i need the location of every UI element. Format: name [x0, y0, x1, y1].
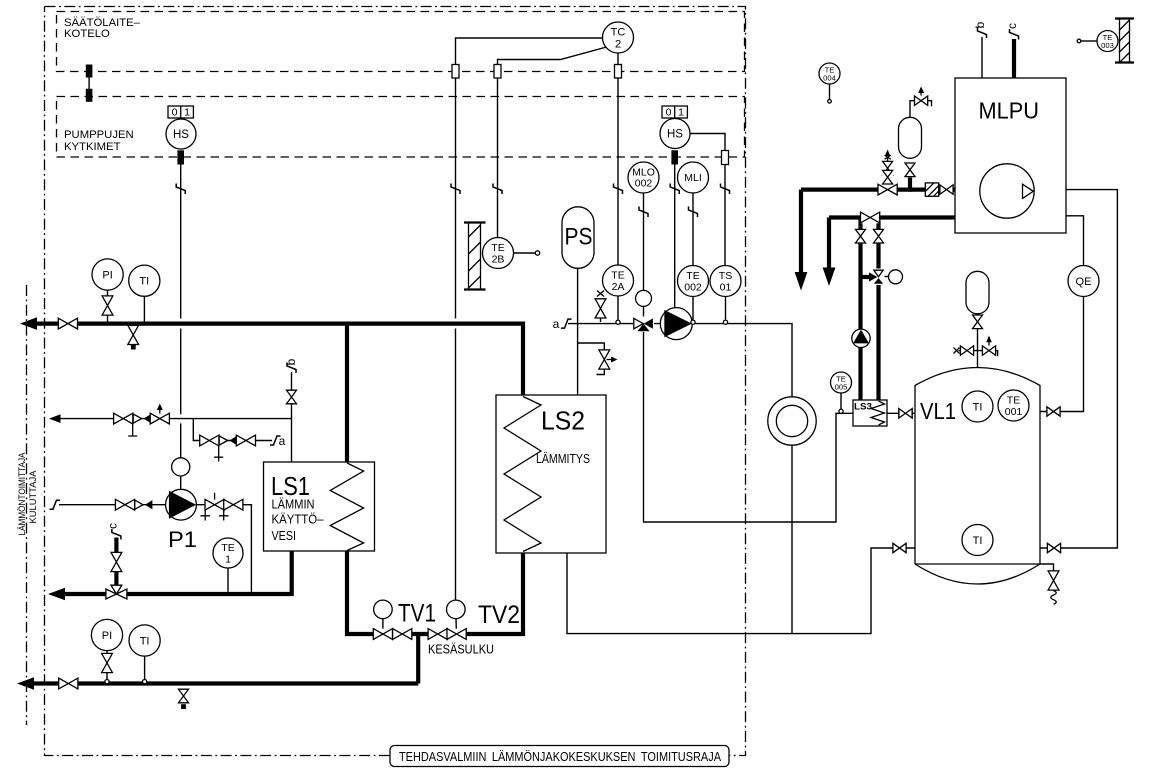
node TI lower — [143, 680, 147, 684]
pipe hot water supply out of LS1 — [58, 551, 292, 594]
pipe relief valve branch — [578, 343, 605, 375]
pipe cold water connection c — [114, 538, 118, 593]
check valve P1 suction — [135, 500, 153, 509]
three way valve hw line — [106, 585, 128, 603]
svg-text:002: 002 — [684, 282, 702, 294]
heat meter double circle — [768, 397, 816, 445]
valve row2 outlet — [236, 435, 256, 447]
label TI upper — [139, 276, 149, 288]
supplier/consumer boundary line — [26, 285, 28, 725]
svg-text:TI: TI — [973, 402, 983, 414]
svg-text:2A: 2A — [612, 281, 625, 293]
arrow MLPU return down — [823, 268, 836, 287]
valve row1 shutoff — [113, 413, 137, 436]
svg-text:LS2: LS2 — [541, 406, 585, 436]
stem expansion vessel top elbow — [910, 101, 932, 118]
charging pump LS3 — [852, 329, 870, 347]
pipe tank drain — [1040, 564, 1054, 572]
valve LS3 riser left — [855, 229, 866, 243]
label LAMMITYS — [536, 451, 590, 466]
svg-text:MLPU: MLPU — [979, 98, 1040, 124]
label LS2 — [541, 406, 585, 436]
pump inside MLPU — [980, 164, 1034, 218]
label a heating — [553, 317, 560, 331]
instrument MLI — [678, 162, 709, 193]
pipe tank top safety group — [959, 329, 998, 369]
svg-text:MLI: MLI — [684, 172, 702, 184]
break mark connection a row2 — [270, 436, 281, 445]
label TE2A — [611, 270, 624, 294]
pipe riser cross link — [861, 275, 871, 279]
label PS — [565, 224, 593, 251]
instrument TS01 — [710, 266, 741, 297]
svg-text:KULUTTAJA: KULUTTAJA — [28, 470, 38, 523]
node TS01 — [723, 320, 727, 324]
svg-text:0: 0 — [666, 107, 672, 119]
stem TE2A to pipe — [617, 296, 619, 321]
label LS3 — [854, 402, 872, 413]
break mark connection c MLPU — [1010, 29, 1019, 40]
wire HS1 to pump P1 — [176, 165, 185, 490]
gauge valve PI lower — [101, 653, 113, 673]
valve P1 discharge 2 — [219, 499, 243, 521]
cabinet connector blocks — [86, 65, 93, 102]
label LAMMONTOIMITTAJA — [17, 452, 27, 535]
wire HS2 to TS01 — [690, 134, 730, 266]
svg-text:b: b — [973, 21, 987, 28]
svg-text:KOTELO: KOTELO — [64, 28, 110, 40]
svg-text:002: 002 — [635, 178, 653, 190]
actuator TV1 — [374, 600, 393, 628]
instrument TE003 — [1077, 31, 1118, 52]
vent arrow vessel safety valve — [918, 87, 924, 96]
vessel above tank — [966, 271, 989, 314]
coil LS3 — [871, 401, 885, 425]
svg-text:001: 001 — [1005, 406, 1023, 418]
pipe LS3 riser right — [876, 218, 880, 401]
label MLPU — [979, 98, 1040, 124]
instrument TI lower — [129, 625, 160, 656]
vent valve row1 — [150, 404, 170, 425]
svg-text:a: a — [279, 434, 286, 448]
pipe hw circulation P1 row — [59, 505, 251, 594]
instrument HS2 — [660, 119, 690, 149]
stem PI lower — [106, 651, 108, 680]
valve LS3 to tank — [899, 408, 913, 418]
expansion vessel MLPU — [899, 117, 922, 158]
capped end mark — [954, 348, 960, 354]
valve row2 shutoff — [199, 435, 223, 462]
pipe district heating supply — [30, 324, 523, 395]
delivery boundary dash-dot frame — [45, 7, 746, 756]
stem TS01 to pipe — [725, 297, 727, 321]
wire TC2 to TV2 actuator — [451, 38, 603, 600]
svg-text:TV1: TV1 — [398, 600, 436, 628]
wall mount TE003 — [1115, 19, 1134, 63]
node PI lower — [105, 680, 109, 684]
valve under vessel — [973, 315, 983, 329]
valve tank left upper — [899, 408, 913, 418]
safety valve heating a-line — [595, 291, 607, 323]
wire MLO002 to magnetic valve — [639, 193, 648, 317]
svg-text:LÄMMÖNTOIMITTAJA: LÄMMÖNTOIMITTAJA — [17, 452, 27, 535]
label HS1 switch 0 1 — [172, 107, 191, 119]
vent arrow supply header — [885, 150, 891, 160]
break mark connection b LS1 — [287, 363, 296, 374]
pipe branch row2 — [193, 419, 272, 441]
wire HS2 to circulation pump — [670, 165, 679, 308]
valve tank left lower — [893, 543, 907, 553]
svg-text:LÄMMIN: LÄMMIN — [272, 497, 315, 512]
coupling circle above P1 — [172, 458, 190, 476]
instrument TC2 — [603, 22, 634, 53]
connector square node column TE2A — [615, 65, 622, 79]
pipe primary to LS1 coil — [345, 322, 349, 463]
valve LS3 riser right — [873, 229, 884, 243]
label HS2 switch 0 1 — [666, 107, 685, 119]
drain valve return line — [178, 689, 189, 709]
relief valve heating — [599, 350, 618, 370]
label P1 — [168, 527, 197, 552]
stem TE1 to pipe — [227, 568, 229, 592]
valve MLPU supply header — [878, 184, 898, 196]
valve main supply — [58, 318, 78, 330]
label PI upper — [102, 270, 112, 282]
svg-text:005: 005 — [835, 383, 848, 392]
stem PI upper — [107, 290, 109, 322]
label PI lower — [102, 630, 112, 642]
svg-text:TI: TI — [140, 636, 150, 648]
svg-text:TE: TE — [611, 270, 624, 282]
instrument TE2A — [603, 265, 634, 296]
svg-text:PI: PI — [102, 270, 112, 282]
svg-text:1: 1 — [678, 107, 684, 119]
valve TV2 body — [447, 628, 467, 640]
valve TV1 body pair — [373, 628, 412, 640]
label MLI — [684, 172, 702, 184]
circulation pump heating — [660, 308, 692, 340]
pipe MLPU return header — [829, 218, 955, 269]
label TI lower — [140, 636, 150, 648]
instrument TE1 — [213, 538, 243, 568]
arrow MLPU supply down — [795, 272, 808, 291]
heat exchanger LS2 box — [496, 395, 606, 553]
label TV2 — [478, 601, 520, 629]
valve MLPU return header — [860, 212, 880, 224]
label HS2 — [667, 129, 683, 141]
switch box HS2 — [662, 106, 687, 118]
stub TE003 — [1081, 40, 1097, 42]
label TC2 — [611, 27, 626, 51]
pipe district heating return — [28, 681, 418, 685]
label b LS1 — [284, 358, 298, 365]
pipe tank upper right to QE — [1040, 216, 1084, 412]
svg-text:c: c — [106, 523, 120, 529]
svg-text:1: 1 — [225, 554, 231, 566]
label TI tank lower — [973, 535, 983, 547]
instrument MLO002 — [628, 162, 659, 193]
pipe LS3 to tank VL1 — [887, 412, 915, 414]
wall mount TE2B — [464, 223, 486, 290]
instrument PI upper — [92, 259, 123, 290]
svg-text:VESI: VESI — [272, 528, 297, 543]
svg-text:P1: P1 — [168, 527, 197, 552]
stem TI upper — [143, 296, 145, 322]
label TE001 — [1005, 395, 1023, 419]
connector block below HS1 — [177, 150, 184, 164]
stem TE005 — [840, 393, 842, 410]
svg-text:TI: TI — [973, 535, 983, 547]
label KULUTTAJA — [28, 470, 38, 523]
label LAMMIN KAYTTOVESI — [272, 497, 325, 544]
vent arrow tank safety — [986, 336, 992, 347]
svg-text:PS: PS — [565, 224, 593, 251]
instrument TE005 — [831, 372, 852, 393]
valve summer shutoff KESASULKU — [428, 628, 448, 640]
label HS1 — [173, 129, 189, 141]
node TE005 — [839, 409, 843, 413]
instrument TE2B — [483, 238, 540, 269]
check valve row1 — [133, 414, 151, 423]
label TE002 — [684, 270, 702, 294]
coil LS2 — [504, 397, 541, 552]
label SAATOLAITEKOTELO — [64, 17, 141, 40]
arrow hot water outlet — [48, 588, 65, 601]
magnetic three way valve — [633, 317, 654, 333]
flexible drain hose — [1051, 591, 1057, 605]
arrow return outlet — [17, 677, 34, 690]
mixing valve LS3 riser — [869, 269, 885, 286]
svg-text:HS: HS — [667, 129, 683, 141]
check valve row2 — [219, 436, 237, 445]
arrow supply inlet — [20, 317, 37, 330]
valve tank right upper — [1047, 406, 1061, 416]
pipe connection b above LS1 — [291, 372, 293, 462]
wire TC2 to TE2A sensor — [614, 53, 623, 265]
actuator circle of magnetic valve — [636, 290, 652, 306]
label c cold water — [106, 523, 120, 529]
label TE005 — [835, 375, 848, 392]
svg-text:LÄMMITYS: LÄMMITYS — [536, 451, 590, 466]
pipe return drop at TV junction — [416, 634, 420, 684]
label TE003 — [1101, 33, 1114, 50]
valve P1 discharge 1 — [200, 493, 224, 521]
label KESASULKU — [428, 643, 494, 657]
delivery limit label box — [390, 746, 729, 767]
break mark connection b MLPU — [978, 28, 987, 39]
pipe LS3 riser left — [858, 218, 862, 401]
valve tank top left — [960, 346, 974, 356]
pipe cold water row1 — [55, 418, 292, 420]
wire TC2 to TE2B sensor — [493, 47, 607, 238]
instrument TI tank upper — [962, 391, 993, 422]
svg-text:LS3: LS3 — [854, 402, 872, 413]
svg-text:004: 004 — [823, 74, 836, 83]
svg-text:TE: TE — [221, 542, 234, 554]
actuator circle LS3 valve — [889, 270, 903, 284]
node TE002 — [691, 320, 695, 324]
stem TE002 to pipe — [692, 297, 694, 321]
label TE004 — [823, 66, 836, 83]
svg-text:TEHDASVALMIIN LÄMMÖNJAKOKESKUK: TEHDASVALMIIN LÄMMÖNJAKOKESKUKSEN TOIMIT… — [399, 750, 722, 764]
pipe MLPU supply header — [801, 190, 955, 273]
pipe LS2 secondary to tank VL1 — [567, 548, 915, 634]
svg-text:2B: 2B — [492, 254, 505, 266]
heat exchanger LS3 box — [853, 400, 887, 426]
valve P1 suction — [115, 499, 135, 511]
vent stack on supply header — [887, 158, 889, 185]
svg-text:HS: HS — [173, 129, 189, 141]
instrument TE004 — [819, 63, 840, 103]
instrument TI upper — [129, 265, 160, 296]
svg-text:01: 01 — [720, 282, 732, 294]
stem TE004 — [829, 84, 831, 100]
instrument PI lower — [91, 619, 122, 650]
pipe hw circulation to LS3 — [644, 329, 854, 522]
label TI tank upper — [973, 402, 983, 414]
label VL1 — [920, 398, 956, 424]
heat exchanger LS1 box — [264, 462, 375, 551]
switch box HS1 — [168, 106, 193, 118]
valve tank right lower — [1047, 543, 1061, 553]
instrument TE002 — [678, 266, 709, 297]
instrument TE001 — [998, 390, 1029, 421]
label TE1 — [221, 542, 234, 566]
label b MLPU — [973, 21, 987, 28]
pipe connection b at MLPU top — [981, 37, 983, 78]
label MLO002 — [632, 167, 655, 190]
svg-text:0: 0 — [172, 107, 178, 119]
valve below vessel — [905, 163, 916, 177]
actuator TV2 — [447, 600, 466, 628]
pipe tank lower right to MLPU — [1040, 190, 1117, 548]
svg-text:2: 2 — [615, 39, 621, 51]
svg-text:TV2: TV2 — [478, 601, 520, 629]
label TV1 — [398, 600, 436, 628]
pipe LS1 coil to TV1 — [347, 551, 523, 634]
label QE — [1076, 276, 1092, 288]
svg-text:KESÄSULKU: KESÄSULKU — [428, 643, 494, 657]
stem TI lower — [144, 656, 146, 680]
svg-text:TE: TE — [491, 242, 504, 254]
connector block below HS2 — [671, 150, 678, 164]
MLPU unit box — [955, 78, 1066, 233]
instrument TI tank lower — [962, 525, 993, 556]
instrument QE — [1068, 266, 1099, 297]
svg-text:KÄYTTÖ–: KÄYTTÖ– — [272, 512, 325, 527]
label TE2B — [491, 242, 504, 266]
gauge valve PI upper — [102, 296, 114, 316]
valve tank top vent — [982, 346, 996, 356]
svg-text:KYTKIMET: KYTKIMET — [64, 141, 121, 153]
connector square node TS01 — [722, 151, 729, 165]
valve before MLPU — [940, 185, 954, 195]
stem LS3 mixing valve actuator — [884, 276, 890, 278]
svg-text:TC: TC — [611, 27, 626, 39]
instrument HS1 — [166, 119, 196, 149]
svg-text:c: c — [1005, 23, 1019, 29]
valve b-connection — [286, 390, 297, 404]
safety valve vessel — [914, 96, 928, 106]
wire MLI to TE002 — [689, 193, 698, 266]
drain valve main supply — [127, 325, 139, 350]
drain valve tank — [1048, 571, 1060, 591]
svg-text:QE: QE — [1076, 276, 1092, 288]
break mark connection c cold water — [112, 529, 121, 540]
svg-text:TE: TE — [1007, 395, 1020, 407]
svg-text:1: 1 — [184, 107, 190, 119]
svg-text:PUMPPUJEN: PUMPPUJEN — [64, 129, 134, 141]
label LS1 — [271, 471, 310, 501]
label PUMPPUJEN KYTKIMET — [64, 129, 134, 153]
pipe expansion PS stem to LS2 — [577, 268, 579, 395]
break mark P1 suction — [50, 500, 61, 509]
pipe connection c at MLPU top — [1012, 39, 1016, 78]
valve cold water c double — [111, 552, 123, 572]
break mark connection a heating — [561, 319, 572, 328]
node TE2A — [616, 320, 620, 324]
connector square node column TE2B — [494, 65, 501, 79]
pump switch dashed box PUMPPUJEN KYTKIMET — [57, 97, 745, 158]
expansion vessel PS — [562, 207, 594, 268]
label c MLPU — [1005, 23, 1019, 29]
pipe expansion vessel stem — [908, 178, 912, 192]
svg-text:PI: PI — [102, 630, 112, 642]
svg-text:VL1: VL1 — [920, 398, 956, 424]
svg-text:TI: TI — [139, 276, 149, 288]
label TS01 — [719, 270, 732, 294]
control cabinet dashed box SAATOLAITEKOTELO — [57, 12, 745, 72]
stub TE2B — [514, 252, 536, 254]
pump P1 — [166, 489, 197, 520]
valve return line — [58, 678, 78, 690]
dirt filter — [925, 183, 938, 196]
svg-text:003: 003 — [1101, 41, 1114, 50]
svg-text:TE: TE — [686, 270, 699, 282]
label a row2 — [279, 434, 286, 448]
svg-text:b: b — [284, 358, 298, 365]
svg-text:TS: TS — [719, 270, 732, 282]
storage tank VL1 — [915, 368, 1040, 585]
coil LS1 — [330, 463, 363, 551]
svg-text:a: a — [553, 317, 560, 331]
arrow cold water inlet — [49, 414, 61, 423]
connector square node column TV2 — [452, 65, 459, 79]
vent valves supply header — [882, 161, 893, 184]
pipe heating circuit a-line with drop to meter — [568, 324, 792, 634]
